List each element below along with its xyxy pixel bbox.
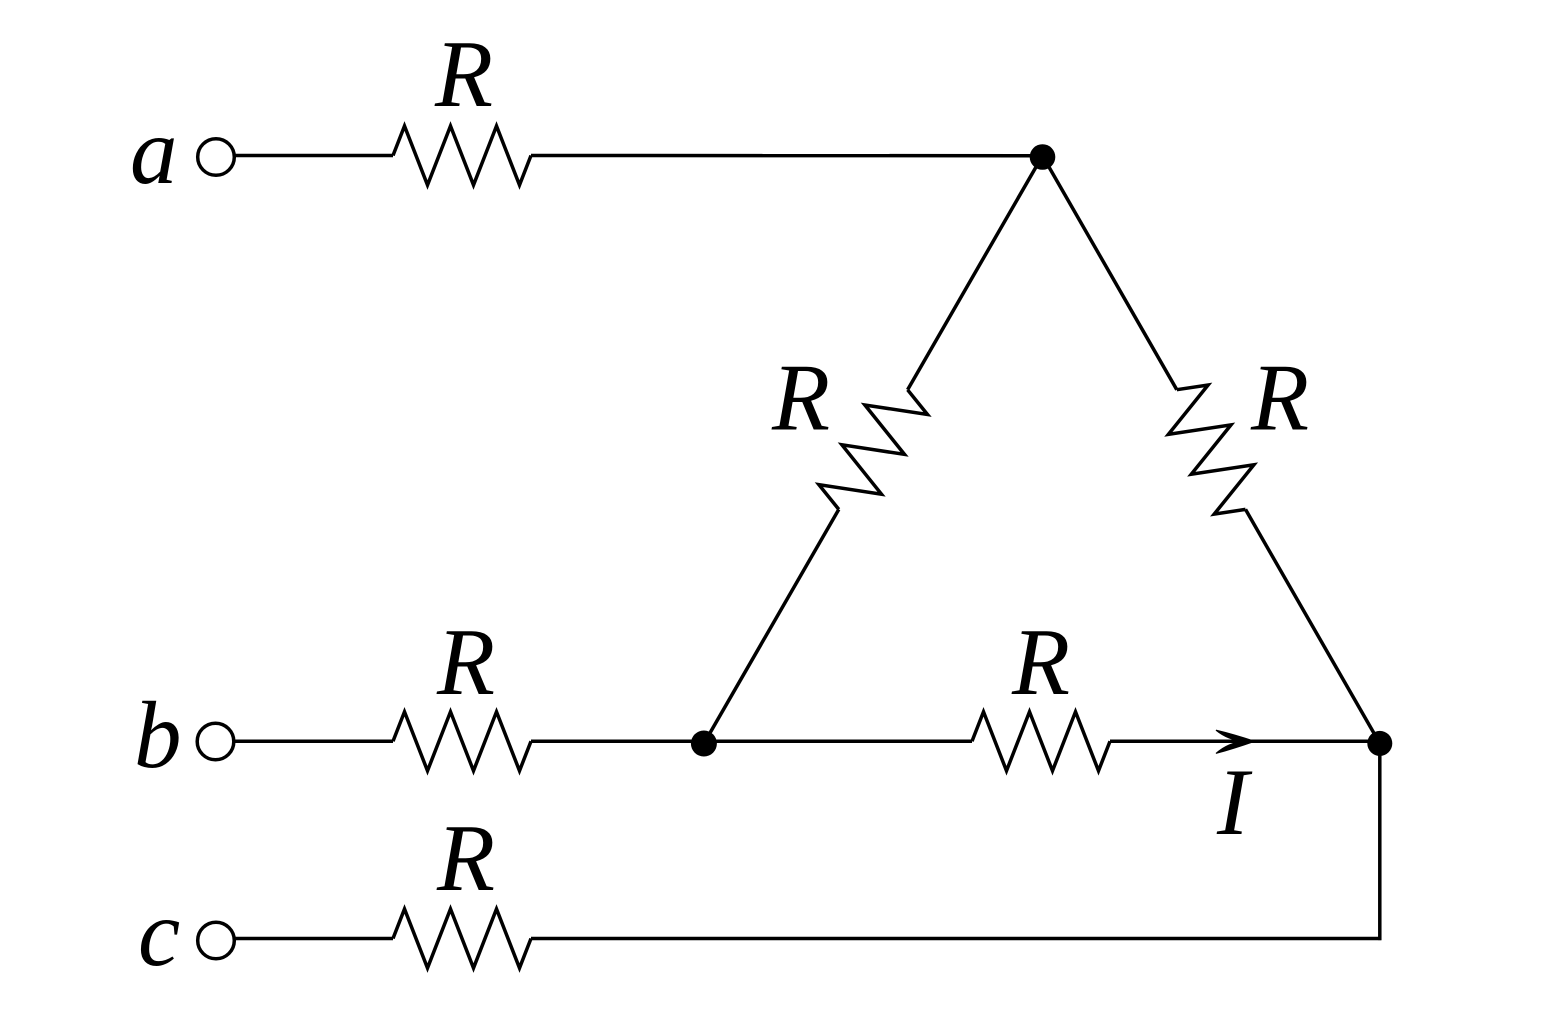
svg-text:b: b [134, 682, 182, 788]
wire R6 to right corner [531, 937, 1381, 941]
svg-text:R: R [771, 345, 830, 451]
wire diagonal left (top node to node b2) [908, 156, 1043, 390]
node top [1030, 144, 1056, 170]
terminal a [198, 139, 235, 176]
wire R4 to node b2 [531, 740, 704, 744]
node b2 [691, 731, 717, 757]
svg-text:R: R [434, 21, 493, 127]
wire b to R4 [234, 740, 393, 744]
wire c to R6 [235, 937, 394, 941]
svg-text:R: R [436, 805, 495, 911]
terminal c [198, 922, 235, 959]
wire node b2 to R5 [704, 740, 972, 744]
svg-text:a: a [130, 98, 178, 204]
resistor R4 (row b) [393, 712, 531, 771]
svg-text:I: I [1216, 749, 1253, 855]
wire diagonal left lower [704, 509, 839, 743]
wire right vertical [1378, 743, 1382, 940]
wire diagonal right (top node to right node) [1043, 156, 1177, 390]
terminal b [197, 723, 234, 760]
svg-text:R: R [1250, 345, 1309, 451]
resistor R6 (row c) [393, 909, 531, 968]
resistor R1 (row a) [393, 126, 531, 185]
resistor R3 (right diagonal) [1168, 385, 1254, 514]
resistor R2 (left diagonal) [819, 390, 928, 510]
current arrow I [1216, 730, 1255, 753]
wire R1 to top node [531, 154, 1043, 158]
svg-text:R: R [1011, 609, 1070, 715]
wire R5 to right node with current I [1110, 740, 1380, 744]
svg-text:c: c [138, 880, 180, 986]
svg-text:R: R [436, 609, 495, 715]
resistor R5 (mid right) [972, 712, 1110, 771]
node right [1367, 731, 1392, 756]
wire diagonal right lower [1246, 509, 1380, 743]
wire a to R1 [235, 154, 394, 158]
